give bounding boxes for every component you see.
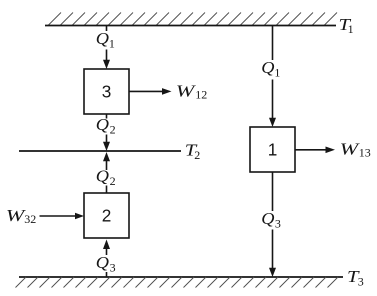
wire W13 arrow out of box 1 [295, 147, 335, 154]
wire Q1 from T1 to label (left) [106, 26, 108, 32]
svg-text:Q: Q [96, 29, 109, 48]
wire Q3 from box 1 to label [272, 172, 274, 211]
svg-text:W: W [176, 81, 197, 100]
label T2 [185, 140, 200, 162]
svg-text:3: 3 [275, 217, 281, 231]
label Q2 (lower) [96, 167, 116, 189]
wire W32 arrow into box 2 [40, 213, 85, 220]
wire Q1 arrow into box 3 [103, 50, 110, 70]
label Q1 (right) [261, 58, 280, 80]
reservoir T1 surface line [45, 25, 336, 27]
wire from label Q3 to T3 line [106, 272, 108, 277]
svg-text:2: 2 [194, 148, 200, 162]
reservoir T3 hatching [16, 277, 339, 288]
svg-text:1: 1 [268, 140, 278, 160]
wire Q1 arrow into box 1 [269, 80, 276, 128]
label Q1 (left) [96, 29, 115, 51]
heat engine box 3 [84, 69, 129, 114]
svg-text:Q: Q [261, 58, 274, 77]
label Q2 (upper) [96, 115, 116, 137]
svg-text:3: 3 [358, 274, 364, 288]
label Q3 (right) [261, 209, 281, 231]
reservoir T2 line [19, 150, 181, 152]
label T3 [347, 267, 364, 289]
svg-text:13: 13 [359, 146, 371, 160]
wire W12 arrow out of box 3 [129, 88, 172, 95]
wire Q2 arrow from box 2 up to T2 line [103, 152, 110, 170]
svg-text:3: 3 [110, 260, 116, 274]
svg-text:1: 1 [109, 36, 115, 50]
svg-text:Q: Q [96, 253, 109, 272]
label W12 [176, 81, 208, 101]
svg-text:3: 3 [102, 82, 112, 102]
wire from label Q2 to box 2 [106, 186, 108, 194]
svg-text:2: 2 [110, 123, 116, 137]
label W13 [340, 140, 371, 160]
label W32 [6, 206, 36, 226]
heat pump box 2 [84, 193, 129, 238]
svg-text:Q: Q [261, 209, 274, 228]
svg-text:2: 2 [110, 174, 116, 188]
svg-text:Q: Q [96, 115, 109, 134]
wire Q3 arrow up into box 2 [103, 240, 110, 256]
wire Q3 arrow onto T3 line [269, 230, 276, 278]
svg-text:12: 12 [195, 87, 207, 101]
label Q3 (left) [96, 253, 116, 275]
wire Q1 from T1 to label (right) [272, 26, 274, 61]
wire Q2 arrow onto T2 line [103, 135, 110, 152]
svg-text:2: 2 [102, 206, 112, 226]
svg-text:Q: Q [96, 167, 109, 186]
reservoir T1 hatching [48, 13, 337, 26]
heat engine box 1 [250, 127, 295, 172]
reservoir T3 surface line [19, 276, 343, 278]
wire Q2 from box 3 to label [106, 114, 108, 119]
svg-text:32: 32 [24, 212, 36, 226]
svg-text:1: 1 [274, 65, 280, 79]
svg-text:W: W [340, 140, 361, 159]
label T1 [339, 15, 354, 36]
svg-text:1: 1 [348, 22, 354, 36]
